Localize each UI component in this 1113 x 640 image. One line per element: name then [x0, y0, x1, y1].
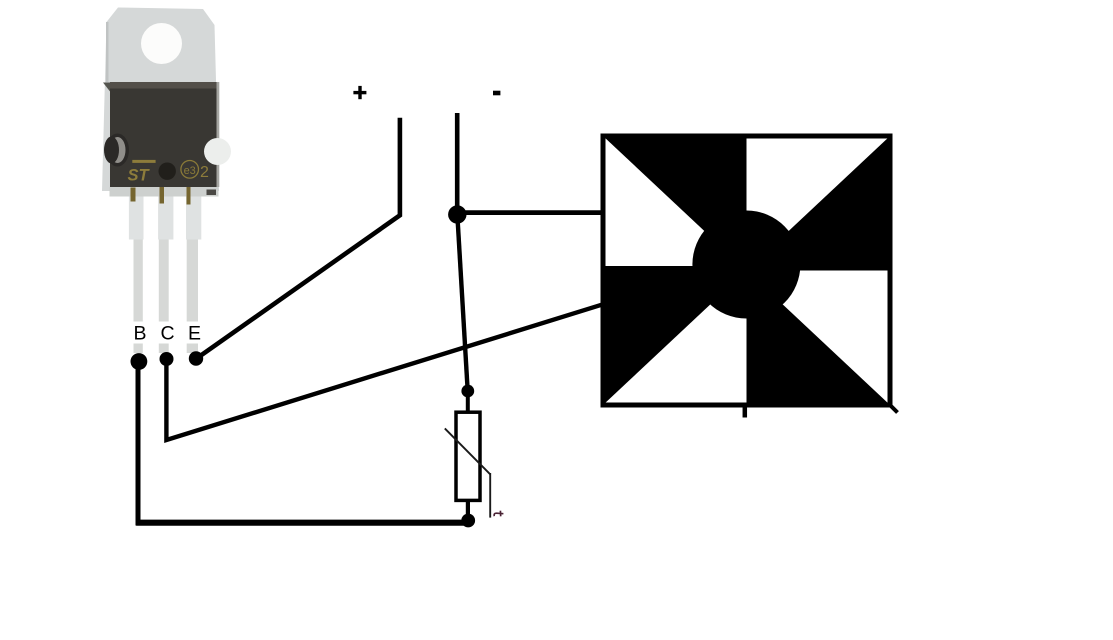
- thermistor foot: [489, 473, 491, 518]
- fan blade right: [747, 136, 891, 271]
- metal tab: [102, 8, 219, 192]
- right notch: [204, 138, 231, 165]
- wire thermistor bottom: [466, 500, 470, 515]
- wire thermistor top: [466, 390, 470, 412]
- node junction minus: [448, 205, 466, 223]
- tab strip below body: [110, 187, 219, 197]
- thermistor diagonal: [445, 428, 490, 474]
- svg-text:B: B: [133, 323, 146, 345]
- pin E lead: [187, 240, 198, 354]
- pin E shoulder: [186, 197, 201, 240]
- node C: [160, 352, 174, 366]
- thermistor RT1 body: [456, 412, 480, 500]
- wire + vertical and diagonal to E: [197, 118, 400, 359]
- wire junction to fan: [457, 210, 604, 215]
- fan tail corner: [890, 405, 898, 413]
- fan blade left: [603, 266, 747, 405]
- fan blade bottom: [747, 271, 891, 406]
- svg-text:2: 2: [200, 164, 209, 181]
- pin B shoulder: [129, 197, 144, 240]
- fan hub: [692, 211, 800, 319]
- svg-text:ST: ST: [128, 167, 151, 185]
- e3 mark: [181, 161, 199, 179]
- transistor Q1 (TO-220 photo): [102, 8, 231, 354]
- thermistor t label: [494, 511, 503, 517]
- fan M1 frame: [603, 136, 890, 405]
- gold streak pin C: [160, 187, 165, 204]
- node thermistor bottom: [461, 514, 475, 528]
- tab hole: [141, 23, 182, 64]
- label - (supply negative): [493, 91, 500, 96]
- dimple: [159, 163, 176, 180]
- node E: [189, 351, 203, 365]
- wire - vertical: [455, 113, 460, 215]
- pin label background: [127, 322, 207, 344]
- pin C shoulder: [158, 197, 173, 240]
- label + (supply positive): [353, 86, 366, 99]
- gold streak pin B: [131, 188, 136, 202]
- wire B vertical: [136, 361, 141, 526]
- node B: [131, 353, 148, 370]
- gold streak pin E: [187, 187, 191, 205]
- svg-text:e3: e3: [184, 165, 196, 177]
- wire junction to thermistor: [457, 216, 467, 391]
- fan tail bottom-mid: [743, 405, 748, 418]
- wire C to fan: [166, 304, 603, 440]
- fan blade top: [603, 136, 747, 271]
- ST logo: [132, 160, 155, 163]
- node thermistor top: [461, 385, 474, 398]
- svg-text:E: E: [188, 323, 201, 345]
- pin C lead: [159, 240, 169, 354]
- pin B lead: [134, 240, 143, 354]
- wire bottom horizontal: [136, 520, 468, 526]
- svg-text:C: C: [160, 323, 174, 345]
- left notch: [106, 134, 129, 167]
- plastic body: [110, 82, 217, 187]
